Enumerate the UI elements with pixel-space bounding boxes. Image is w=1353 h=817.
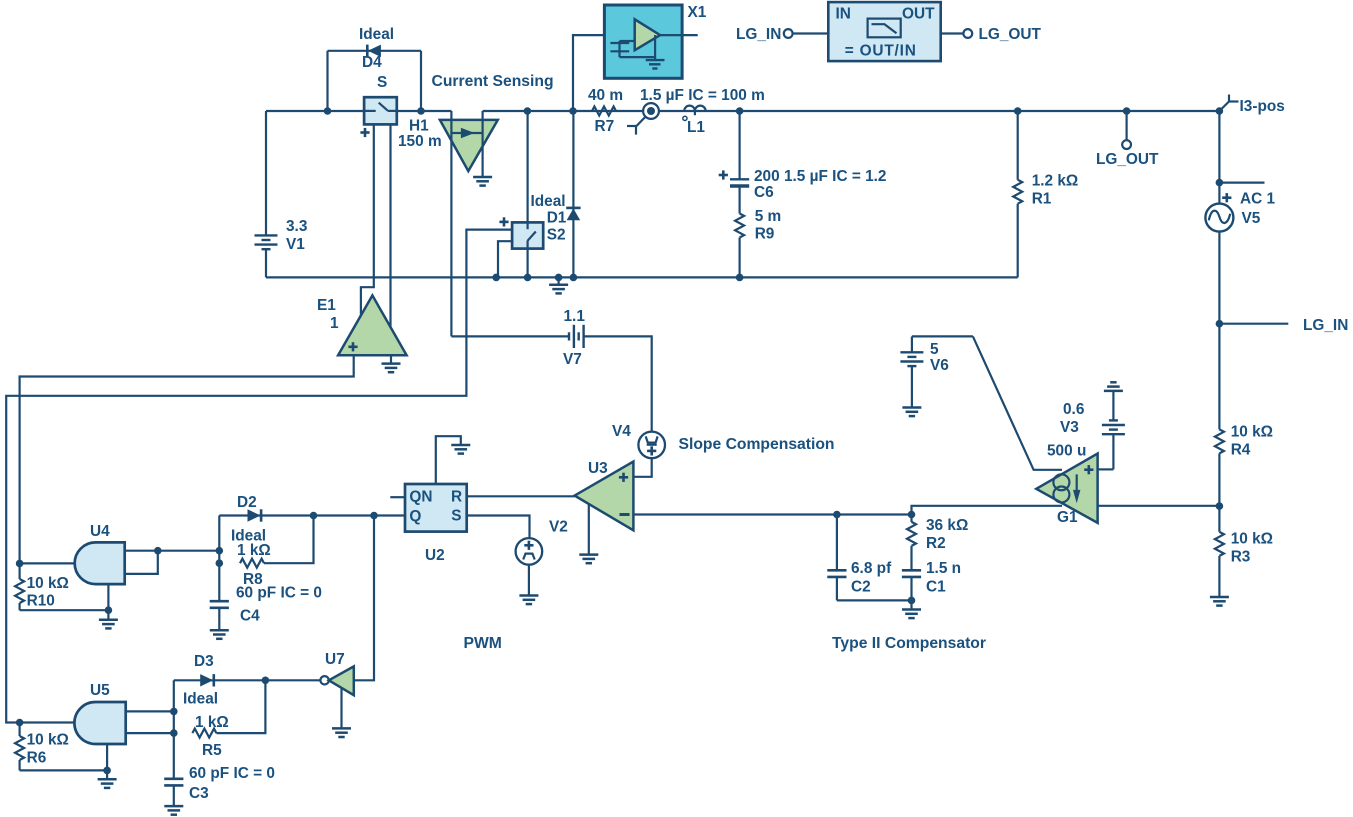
AND gate U5 (74, 682, 125, 744)
svg-text:S: S (377, 74, 387, 91)
wire U5 output bottom (126, 732, 174, 734)
node compensator R2 top (908, 511, 916, 519)
svg-text:10 kΩ: 10 kΩ (27, 575, 69, 592)
wire U5 input left (20, 721, 75, 723)
svg-text:R2: R2 (926, 535, 946, 552)
resistor R3 (1215, 531, 1273, 598)
block X1 (573, 4, 707, 111)
ground U5 (98, 779, 117, 788)
svg-text:R10: R10 (27, 592, 55, 609)
svg-text:U2: U2 (425, 547, 445, 564)
node U4 ground (105, 606, 113, 614)
ground V3 top (1104, 382, 1123, 420)
svg-text:L1: L1 (687, 119, 705, 136)
svg-text:OUT: OUT (902, 6, 935, 23)
battery V6 (900, 336, 973, 407)
svg-text:36 kΩ: 36 kΩ (926, 517, 968, 534)
ground compensator (902, 610, 921, 619)
svg-text:Current Sensing: Current Sensing (432, 73, 554, 90)
svg-text:1.2 kΩ: 1.2 kΩ (1032, 173, 1079, 190)
svg-text:V7: V7 (563, 351, 582, 368)
svg-text:LG_IN: LG_IN (736, 26, 781, 43)
node compensator ground (908, 597, 916, 605)
svg-text:QN: QN (409, 489, 432, 506)
svg-text:Type II Compensator: Type II Compensator (832, 635, 986, 652)
svg-text:0.6: 0.6 (1063, 401, 1084, 418)
inductor L1 (640, 87, 765, 136)
label Ideal D1 S2 (531, 193, 567, 244)
node U4 feedback (154, 547, 162, 555)
svg-text:V6: V6 (930, 357, 949, 374)
svg-text:U5: U5 (90, 682, 110, 699)
node top rail S2 (524, 107, 532, 115)
svg-text:U7: U7 (325, 651, 345, 668)
node bottom rail S2 (524, 274, 532, 282)
wire V7 to V4 (584, 336, 652, 431)
capacitor C4 (210, 585, 322, 631)
svg-text:Ideal: Ideal (183, 691, 218, 708)
node AC stub (1216, 179, 1224, 187)
svg-text:E1: E1 (317, 297, 336, 314)
node D4 right (417, 107, 425, 115)
ground H1 (473, 177, 492, 186)
node bottom rail S2+ (492, 274, 500, 282)
source V4 slope ramp (612, 423, 665, 458)
svg-text:V5: V5 (1242, 210, 1261, 227)
svg-text:500 u: 500 u (1047, 443, 1086, 460)
wire V2 to ground (528, 565, 530, 596)
node U5 bottom junction (170, 729, 178, 737)
wire U5 output top (126, 710, 174, 712)
svg-text:R6: R6 (27, 749, 47, 766)
wire V5 to LG_IN node (1218, 232, 1220, 430)
ground V2 (519, 596, 538, 605)
node R8 right top (310, 512, 318, 520)
svg-text:LG_OUT: LG_OUT (979, 26, 1042, 43)
svg-text:1.5 µF IC = 100 m: 1.5 µF IC = 100 m (640, 87, 765, 104)
capacitor C2 (827, 515, 892, 601)
node bottom rail ground tap (555, 274, 563, 282)
svg-text:U3: U3 (588, 460, 608, 477)
svg-text:Ideal: Ideal (359, 26, 394, 43)
wire U2 R to U3 output (467, 495, 575, 497)
svg-text:6.8 pf: 6.8 pf (851, 560, 892, 577)
wire U3 ground leg (588, 504, 590, 555)
inverter U7 (320, 651, 353, 695)
svg-text:R3: R3 (1231, 549, 1251, 566)
wire S sense left to E1 (361, 124, 374, 315)
wire U4 feedback loop (125, 551, 158, 574)
node compensator C2 top (833, 511, 841, 519)
svg-text:10 kΩ: 10 kΩ (1231, 531, 1273, 548)
node R4/R3 junction (1216, 502, 1224, 510)
wire S2 minus to rail (498, 241, 512, 277)
svg-text:R4: R4 (1231, 442, 1251, 459)
svg-text:3.3: 3.3 (286, 218, 307, 235)
svg-text:1.1: 1.1 (564, 308, 586, 325)
ground E1 (382, 355, 401, 372)
switch S (360, 74, 396, 137)
svg-text:C6: C6 (754, 184, 774, 201)
switch S2 (499, 217, 543, 248)
wire H1 output to V7 and V4 (451, 335, 568, 337)
svg-text:V4: V4 (612, 423, 631, 440)
svg-text:R: R (451, 489, 462, 506)
svg-text:40 m: 40 m (588, 87, 623, 104)
svg-text:D1: D1 (547, 210, 567, 227)
resistor R6 (15, 723, 69, 771)
probe marker I3-pos (1216, 95, 1285, 116)
svg-text:10 kΩ: 10 kΩ (1231, 424, 1273, 441)
svg-text:1: 1 (330, 315, 339, 332)
wire U2 QN stub (390, 496, 405, 498)
wire D3 horizontal (174, 679, 321, 681)
svg-text:R7: R7 (595, 118, 615, 135)
node bottom rail D1 (570, 274, 578, 282)
wire R6 bottom to U5 ground (20, 769, 108, 771)
wire U4 bottom stem (107, 584, 109, 620)
ground U3 (579, 555, 598, 564)
terminal LG_OUT lower (1096, 111, 1159, 168)
node U5 ground (103, 767, 111, 775)
resistor R2 (907, 515, 968, 571)
wire D2 left vertical (218, 516, 220, 602)
resistor R8 (237, 516, 314, 589)
node D3/R5 right (262, 677, 270, 685)
svg-text:D2: D2 (237, 494, 257, 511)
diode D1 vertical (566, 111, 580, 277)
wire U2 top pin to ground (436, 436, 461, 484)
svg-text:C1: C1 (926, 579, 946, 596)
terminal LG_OUT top (941, 26, 1042, 43)
wire U4 output (125, 550, 220, 552)
source V5 AC (1205, 191, 1275, 232)
svg-text:5: 5 (930, 341, 939, 358)
svg-text:LG_OUT: LG_OUT (1096, 151, 1159, 168)
svg-text:Q: Q (409, 508, 421, 525)
wire U4 input left (20, 562, 75, 564)
ground U2 top (451, 445, 470, 454)
svg-text:60 pF IC = 0: 60 pF IC = 0 (236, 585, 322, 602)
svg-text:C3: C3 (189, 785, 209, 802)
wire compensator jog to G1 rail (912, 506, 1063, 515)
node U5 top junction (170, 708, 178, 716)
ground U7 (332, 728, 351, 737)
svg-text:U4: U4 (90, 523, 110, 540)
svg-text:10 kΩ: 10 kΩ (27, 732, 69, 749)
wire G1 output rail right (1098, 505, 1220, 507)
block loop gain LG (828, 2, 940, 61)
capacitor C1 (902, 560, 961, 610)
node LG_IN (1216, 320, 1224, 328)
svg-text:C2: C2 (851, 579, 871, 596)
wire right column top (1218, 111, 1220, 204)
wire D2 horizontal (219, 514, 405, 516)
diode D3 (183, 653, 218, 708)
wire top rail right segment (483, 110, 1220, 112)
op-amp E1 (317, 295, 407, 355)
wire S sense right to E1 (389, 124, 391, 327)
ground V6 (902, 408, 921, 417)
ground U4 (99, 620, 118, 629)
wire U3 plus input to V4 (633, 458, 651, 477)
wire V6 diagonal to G1 (973, 336, 1062, 469)
wire U7 output up to Q node (354, 516, 374, 681)
node U7 top (370, 512, 378, 520)
wire RC node vertical (173, 680, 175, 779)
svg-text:C4: C4 (240, 608, 260, 625)
svg-text:H1: H1 (409, 118, 429, 135)
svg-text:V2: V2 (549, 519, 568, 536)
wire U2 S to V2 (467, 516, 530, 539)
wire S2 plus control down-left (6, 230, 512, 723)
svg-text:AC 1: AC 1 (1240, 191, 1276, 208)
node D4 left (324, 107, 332, 115)
wire bottom rail (266, 276, 1018, 278)
svg-text:D4: D4 (362, 54, 382, 71)
svg-text:200 1.5 µF IC = 1.2: 200 1.5 µF IC = 1.2 (754, 168, 887, 185)
svg-text:Slope Compensation: Slope Compensation (679, 436, 835, 453)
ground C4 (210, 630, 229, 639)
wire U3 minus input to compensator (633, 513, 911, 515)
svg-text:S2: S2 (547, 227, 566, 244)
svg-text:Ideal: Ideal (531, 193, 566, 210)
ground bottom rail (549, 277, 568, 293)
capacitor C6 polarized (719, 111, 887, 214)
current sense H1 amplifier (440, 111, 498, 336)
diode D2 (231, 494, 266, 545)
wire R10 bottom to U4 ground (20, 609, 109, 611)
wire U7 ground leg (340, 687, 342, 728)
wire C2 bottom to node (837, 599, 912, 601)
svg-text:1 kΩ: 1 kΩ (237, 542, 271, 559)
transconductance amp G1 (1036, 443, 1097, 527)
svg-text:PWM: PWM (464, 635, 502, 652)
flip-flop U2 (405, 484, 467, 564)
svg-text:G1: G1 (1057, 509, 1078, 526)
node U4 input (16, 560, 24, 568)
wire U5 bottom stem (106, 744, 108, 779)
wire top rail left segment (266, 110, 451, 112)
node U5 input (16, 719, 24, 727)
svg-text:R9: R9 (755, 225, 775, 242)
wire S2 bottom stem (526, 249, 528, 278)
svg-text:V1: V1 (286, 236, 305, 253)
source V2 pulse (516, 519, 568, 565)
current probe on rail (627, 103, 659, 135)
wire S2 top stem (526, 111, 528, 222)
svg-text:5 m: 5 m (755, 208, 782, 225)
node R8 left (216, 559, 224, 567)
resistor R10 (15, 563, 69, 610)
node D2/U4 (216, 547, 224, 555)
node bottom rail C6/R9 (736, 274, 744, 282)
node top rail R1 (1014, 107, 1022, 115)
node top rail LG_OUT (1123, 107, 1131, 115)
node top rail L1/C6 (736, 107, 744, 115)
resistor R9 (735, 208, 781, 277)
ground C3 (164, 806, 183, 815)
svg-text:= OUT/IN: = OUT/IN (845, 43, 917, 60)
svg-text:R1: R1 (1032, 191, 1052, 208)
capacitor C3 (164, 765, 275, 806)
svg-text:1.5 n: 1.5 n (926, 560, 961, 577)
terminal LG_IN (736, 26, 828, 43)
svg-text:X1: X1 (688, 4, 707, 21)
resistor R7 (588, 87, 623, 135)
AND gate U4 (75, 523, 125, 584)
comparator U3 (575, 460, 634, 530)
wire E1 plus output to left column (20, 355, 354, 563)
svg-text:IN: IN (836, 6, 851, 23)
svg-text:60 pF IC = 0: 60 pF IC = 0 (189, 765, 275, 782)
label H1 150 m (398, 118, 442, 151)
svg-text:150 m: 150 m (398, 133, 442, 150)
node top rail X1/D1 (569, 107, 577, 115)
diode D4 with wires (328, 26, 422, 111)
resistor R4 (1215, 424, 1273, 532)
wire AC stub (1219, 182, 1264, 184)
battery V7 horizontal (563, 308, 585, 368)
wire LG_IN stub (1219, 323, 1288, 325)
svg-text:1 kΩ: 1 kΩ (195, 714, 229, 731)
battery V3 (1060, 401, 1125, 469)
wire G1 plus input (1098, 468, 1114, 470)
resistor R5 (192, 680, 265, 759)
svg-text:V3: V3 (1060, 419, 1079, 436)
svg-text:I3-pos: I3-pos (1240, 98, 1285, 115)
battery V1 (255, 111, 308, 277)
resistor R1 (1013, 111, 1078, 277)
svg-text:LG_IN: LG_IN (1303, 317, 1348, 334)
svg-text:S: S (451, 508, 461, 525)
svg-text:R5: R5 (202, 742, 222, 759)
svg-text:D3: D3 (194, 653, 214, 670)
ground R3 (1210, 597, 1229, 606)
